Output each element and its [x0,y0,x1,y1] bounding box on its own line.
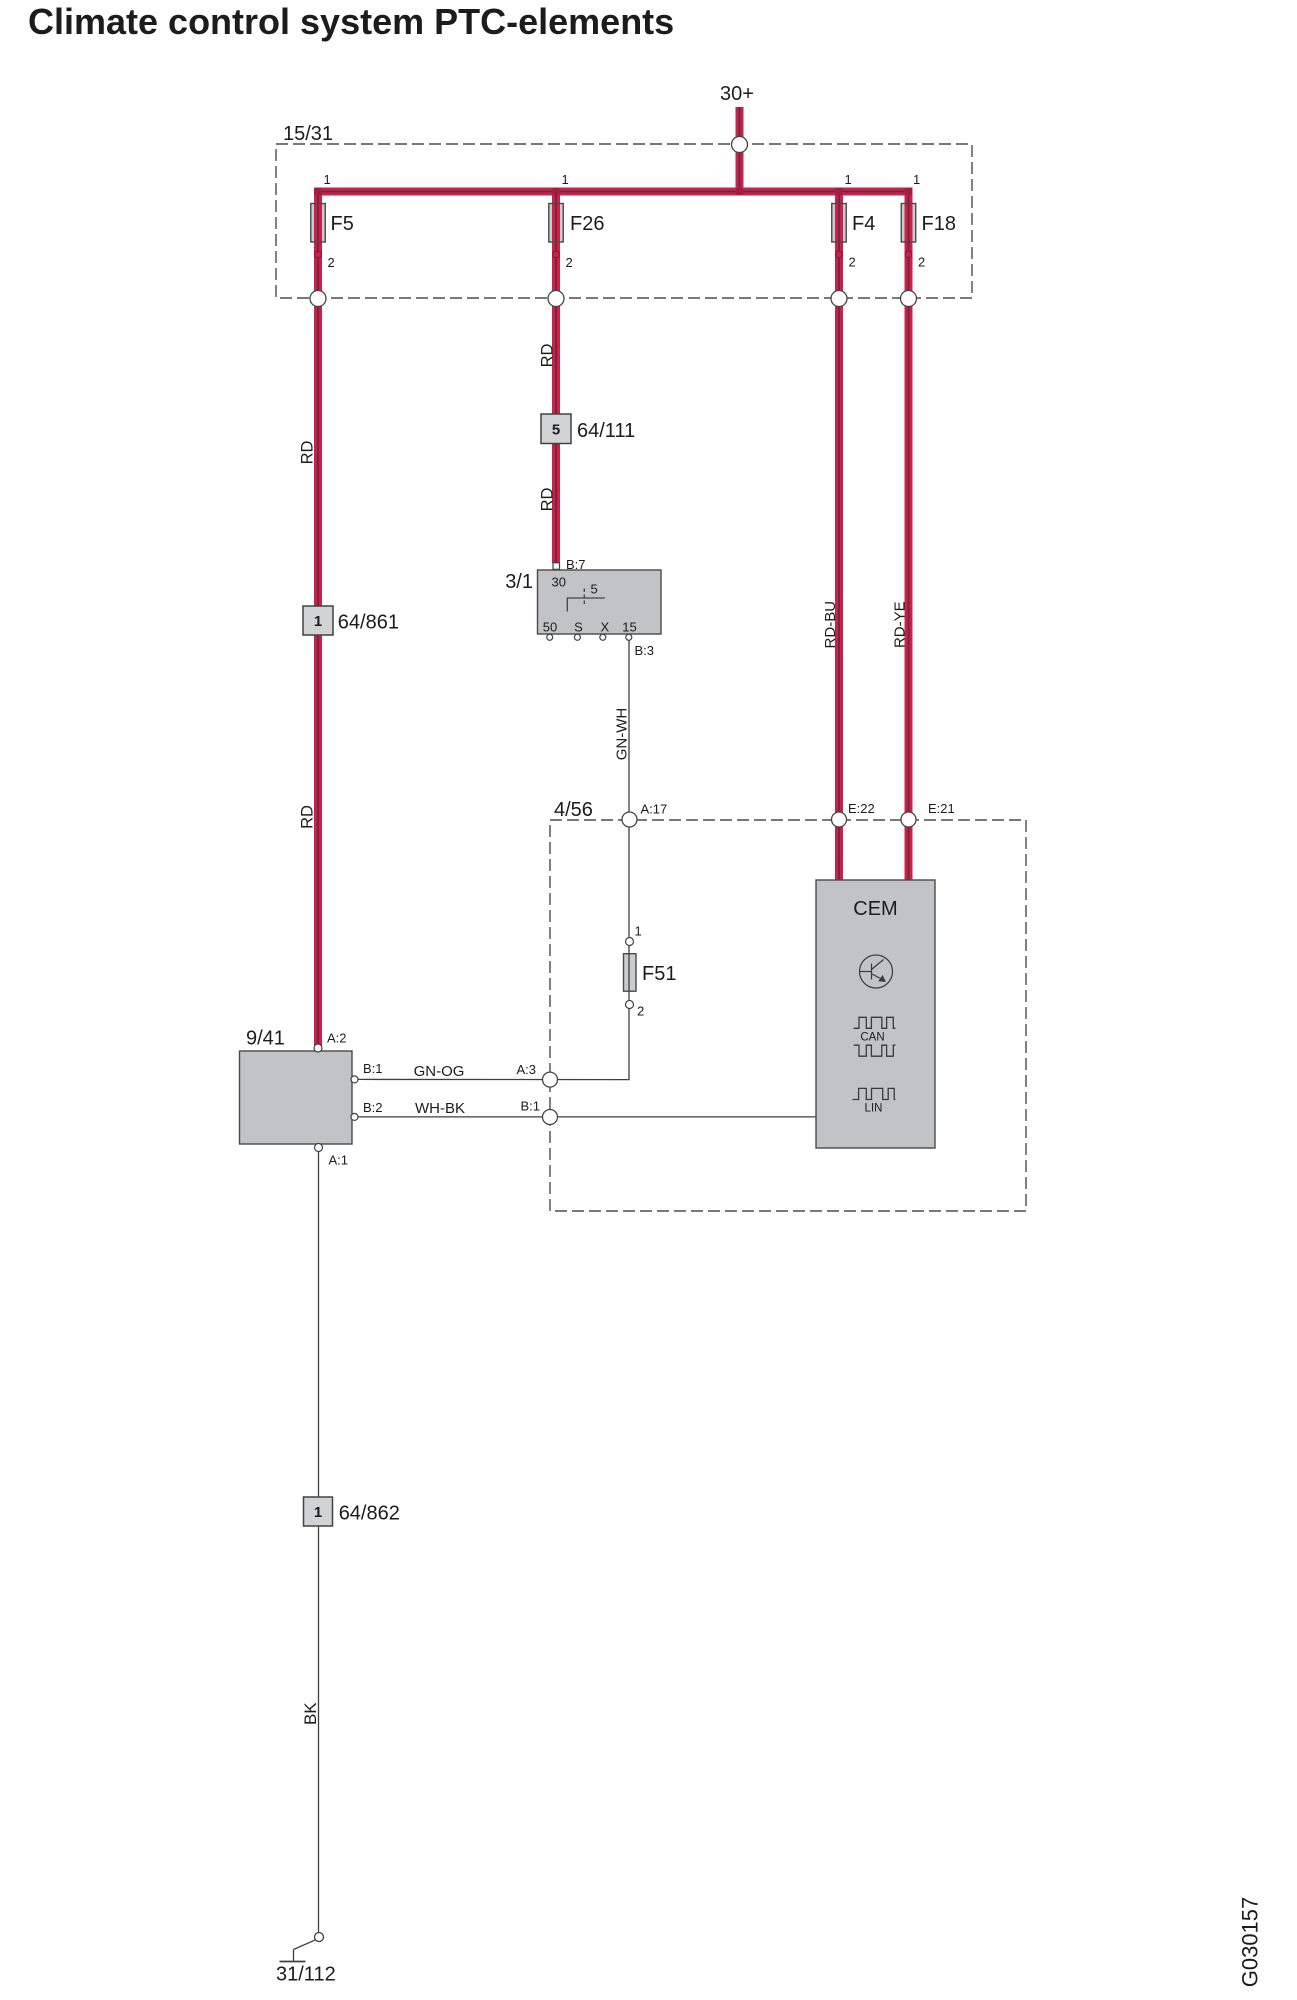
svg-text:9/41: 9/41 [246,1028,285,1050]
pin A:2 circle [314,1044,322,1052]
svg-text:GN-OG: GN-OG [414,1063,465,1080]
svg-text:B:7: B:7 [566,557,586,572]
ignition switch relay 3/1 [505,557,661,658]
wire RD-BU through F4 down to CEM E:22 [835,192,843,881]
node 30+ circle on 15/31 border [732,137,748,153]
node F26 out on 15/31 border [548,291,564,307]
svg-text:30+: 30+ [720,83,754,105]
svg-text:BK: BK [301,1702,320,1725]
svg-text:CAN: CAN [860,1032,884,1044]
node F4 out on 15/31 border [831,291,847,307]
svg-text:2: 2 [849,255,856,270]
svg-text:F51: F51 [642,963,676,985]
svg-text:F4: F4 [852,213,875,235]
node F18 out on 15/31 border [901,291,917,307]
junction F26 pin 1 on bus [553,188,560,195]
connector 64/862 [304,1497,400,1526]
svg-text:30: 30 [552,575,566,590]
svg-text:X: X [600,620,609,635]
LIN bus symbol [853,1088,896,1099]
pin F4:2 dot [836,251,843,258]
wire RD-YE through F18 down to CEM E:21 [905,192,913,881]
svg-text:A:2: A:2 [327,1031,347,1046]
svg-text:31/112: 31/112 [276,1964,336,1986]
svg-text:64/862: 64/862 [339,1503,400,1525]
svg-text:50: 50 [543,620,557,635]
svg-text:G030157: G030157 [1238,1897,1263,1988]
junction F4 pin 1 on bus [836,188,843,195]
transistor symbol in CEM [860,955,893,988]
svg-text:15/31: 15/31 [283,123,333,145]
svg-text:RD: RD [299,441,317,465]
pin F5:2 dot [315,251,322,258]
svg-text:S: S [574,620,583,635]
wire RD through F26 down to relay B:7 [552,192,560,564]
svg-text:1: 1 [913,172,920,187]
svg-text:GN-WH: GN-WH [614,708,631,761]
svg-text:4/56: 4/56 [554,799,593,821]
pin X circle [600,634,606,640]
svg-text:RD-YE: RD-YE [892,601,909,648]
connector 64/111 [541,414,635,444]
pin S circle [574,634,580,640]
fuse F51 [624,924,677,1019]
node B:1 on 4/56 border [543,1110,558,1125]
fuse F18 [901,204,956,243]
CAN bus symbol [854,1017,896,1056]
control module CEM [816,880,935,1148]
pin 50 circle [547,634,553,640]
wire RD 30+ feed drop [736,107,744,192]
svg-text:1: 1 [845,172,852,187]
pin F26:2 dot [553,251,560,258]
pin A:1 circle [315,1144,323,1152]
svg-text:B:1: B:1 [363,1061,383,1076]
fuse F4 [832,204,876,243]
svg-text:WH-BK: WH-BK [415,1100,465,1117]
svg-text:CEM: CEM [853,898,897,920]
switch contact symbol [567,598,605,612]
svg-text:1: 1 [314,1504,322,1521]
fuse F5 [311,204,354,243]
svg-text:1: 1 [314,613,322,630]
svg-text:B:3: B:3 [635,643,655,658]
svg-text:64/861: 64/861 [338,612,399,634]
svg-text:2: 2 [918,255,925,270]
pin F18:2 dot [905,251,912,258]
connector 64/861 [303,606,399,635]
fuse/relay box 15/31 dashed outline [276,144,972,298]
node A:3 on 4/56 border [543,1072,558,1087]
svg-text:64/111: 64/111 [577,420,635,442]
svg-text:A:3: A:3 [516,1062,536,1077]
node E:22 on 4/56 border [832,812,847,827]
svg-text:2: 2 [637,1004,644,1019]
pin F51:1 circle [626,938,634,946]
svg-text:A:1: A:1 [329,1153,349,1168]
fuse F26 [549,204,605,243]
svg-text:5: 5 [591,582,598,597]
pin B:2 circle [351,1113,358,1120]
svg-text:LIN: LIN [865,1103,883,1115]
svg-text:2: 2 [566,255,573,270]
pin B:1 circle [351,1076,358,1083]
svg-text:Climate control system PTC-ele: Climate control system PTC-elements [28,1,674,42]
wire RD through F5 down to 9/41 A:2 [314,192,322,1050]
svg-text:1: 1 [635,924,642,939]
ground 31/112 [276,1933,336,1986]
svg-text:1: 1 [562,172,569,187]
svg-text:B:1: B:1 [520,1099,540,1114]
svg-text:RD: RD [539,344,557,368]
svg-text:F26: F26 [570,213,604,235]
wire WH-BK from 9/41 B:2 to CEM B:1 [359,1116,817,1118]
node A:17 on 4/56 border [622,812,637,827]
wire RD bus in 15/31 [314,188,913,196]
pin B:7 square [553,563,560,570]
junction F5 pin 1 on bus [315,188,322,195]
svg-text:15: 15 [622,620,636,635]
svg-text:RD: RD [299,805,317,829]
svg-text:3/1: 3/1 [505,571,533,593]
node F5 out on 15/31 border [310,291,326,307]
svg-text:F18: F18 [922,213,956,235]
pin F51:2 circle [626,1001,634,1009]
junction F18 pin 1 on bus [905,188,912,195]
wire BK from 9/41 A:1 to ground [318,1147,320,1933]
svg-text:RD: RD [539,488,557,512]
svg-text:1: 1 [324,172,331,187]
pin 15 circle [626,634,632,640]
svg-text:E:22: E:22 [848,801,875,816]
svg-text:A:17: A:17 [641,802,668,817]
svg-text:RD-BU: RD-BU [822,601,839,649]
switch actuator dashed [583,589,585,607]
svg-text:2: 2 [328,255,335,270]
svg-text:5: 5 [552,422,560,439]
svg-text:B:2: B:2 [363,1100,383,1115]
svg-text:E:21: E:21 [928,801,955,816]
junction 30+ tap on bus [736,188,743,195]
svg-text:F5: F5 [331,213,354,235]
wire GN-WH from relay B:3 to A:17 to F51 and corner to A:3 [359,640,630,1080]
CEM enclosure 4/56 dashed outline [550,820,1026,1211]
PTC element unit 9/41 [240,1028,383,1168]
node E:21 on 4/56 border [901,812,916,827]
